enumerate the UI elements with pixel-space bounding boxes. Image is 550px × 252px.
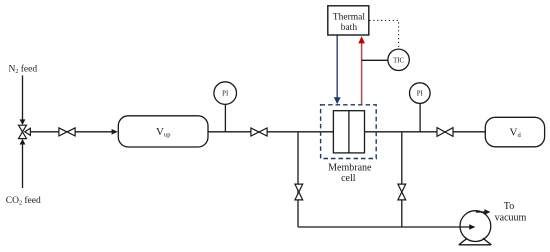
svg-text:PI: PI <box>222 91 229 98</box>
svg-text:CO2 feed: CO2 feed <box>6 195 41 207</box>
svg-text:vacuum: vacuum <box>495 213 527 224</box>
svg-text:TIC: TIC <box>393 57 404 64</box>
svg-text:Thermal: Thermal <box>333 13 366 23</box>
svg-text:bath: bath <box>341 23 358 33</box>
svg-text:PI: PI <box>417 91 424 98</box>
svg-text:cell: cell <box>341 173 356 184</box>
svg-text:To: To <box>504 201 514 212</box>
svg-text:N2 feed: N2 feed <box>9 64 38 76</box>
